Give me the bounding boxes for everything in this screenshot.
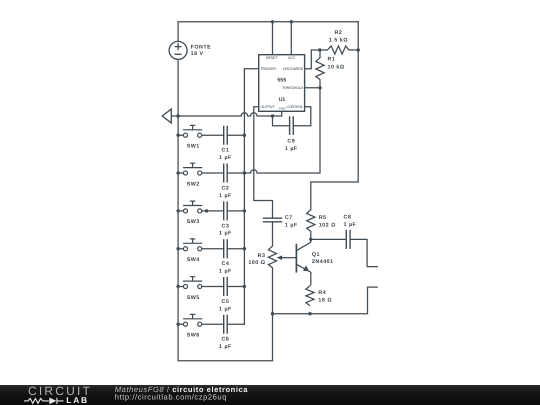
wire VCC pin to top rail (290, 22, 292, 55)
svg-text:C5: C5 (221, 299, 229, 305)
svg-text:http://circuitlab.com/czp26uq: http://circuitlab.com/czp26uq (115, 392, 227, 401)
wire C8 right to lower stub (350, 239, 377, 266)
svg-text:18 Ω: 18 Ω (318, 298, 332, 304)
resistor R2 1.5k (327, 46, 349, 54)
wire R2 right lead (349, 49, 358, 51)
capacitor C5 1uF (224, 277, 228, 296)
capacitor C3 1uF (224, 201, 228, 220)
wire source bottom / left switch rail / bottom ground return (178, 59, 272, 360)
wire SW2 row leads (178, 172, 244, 174)
wire SW5 row leads (178, 286, 244, 288)
svg-text:FONTE: FONTE (191, 45, 212, 51)
svg-text:DISCHARGE: DISCHARGE (283, 67, 304, 71)
wire THRESHOLD pin (305, 87, 320, 89)
svg-text:1 µF: 1 µF (219, 155, 232, 161)
svg-text:R1: R1 (328, 56, 336, 62)
resistor R1 10k (316, 58, 324, 80)
svg-text:Q1: Q1 (312, 252, 320, 258)
svg-text:1 µF: 1 µF (219, 193, 232, 199)
svg-text:C7: C7 (285, 215, 293, 221)
potentiometer R3 100 (268, 246, 276, 268)
wire R2 left node to R1 top (320, 50, 328, 58)
capacitor C1 1uF (224, 126, 228, 145)
wire bottom node to right stub (273, 287, 378, 314)
svg-text:1 µF: 1 µF (219, 344, 232, 350)
svg-text:C4: C4 (221, 261, 229, 267)
op-amp U1 555 timer box (259, 55, 305, 112)
wire top supply rail (178, 21, 358, 23)
svg-text:10 kΩ: 10 kΩ (328, 64, 345, 70)
switch SW1 pushbutton (183, 125, 202, 137)
wire right supply rail down to R5 (311, 22, 358, 210)
potentiometer R3 wiper arrow (281, 257, 296, 259)
capacitor C7 1uF (263, 218, 282, 222)
svg-text:VCC: VCC (288, 56, 296, 60)
wire RESET pin to top rail (272, 22, 274, 55)
svg-text:GND: GND (279, 107, 287, 111)
svg-text:2N4401: 2N4401 (312, 259, 334, 265)
svg-text:LAB: LAB (66, 395, 89, 405)
voltage source V1 FONTE 18V (169, 41, 187, 59)
svg-text:SW1: SW1 (187, 144, 200, 150)
wire SW1 row leads (178, 134, 244, 136)
resistor R4 18 (306, 286, 314, 306)
svg-text:RESET: RESET (266, 56, 278, 60)
wire ground net to 555 GND (hops over trigger and output verticals) (178, 111, 282, 116)
svg-text:C2: C2 (221, 185, 229, 191)
wire R5 bottom to collector node (310, 231, 312, 239)
wire OUTPUT pin down to C7 (254, 107, 273, 218)
wire R3 bottom to ground node (272, 268, 274, 314)
wire C9 right to CONTROL pin (293, 107, 311, 126)
svg-text:18 V: 18 V (191, 51, 204, 57)
capacitor C8 1uF (346, 230, 350, 249)
svg-text:SW3: SW3 (187, 219, 200, 225)
svg-text:SW4: SW4 (187, 257, 200, 263)
resistor R5 102 (307, 210, 315, 232)
footer logo resistor-diode-LAB (24, 398, 64, 404)
svg-text:C3: C3 (221, 223, 229, 229)
svg-text:OUTPUT: OUTPUT (260, 105, 275, 109)
svg-text:1 µF: 1 µF (285, 146, 298, 152)
svg-text:1 µF: 1 µF (219, 269, 232, 275)
svg-text:C9: C9 (287, 139, 295, 145)
svg-text:C6: C6 (221, 337, 229, 343)
wire source top lead (177, 22, 179, 42)
svg-text:R4: R4 (318, 290, 326, 296)
svg-text:CONTROL: CONTROL (286, 105, 303, 109)
svg-text:SW5: SW5 (187, 295, 200, 301)
transistor Q1 2N4401 (296, 239, 310, 285)
svg-text:100 Ω: 100 Ω (248, 260, 265, 266)
wire collector node to C8 left (311, 238, 347, 240)
svg-text:SW2: SW2 (187, 181, 200, 187)
switch SW2 pushbutton (183, 163, 202, 175)
wire C9 left lead (273, 116, 290, 126)
wire SW6 row leads (178, 323, 224, 325)
svg-text:R2: R2 (334, 30, 342, 36)
wire TRIGGER pin to capacitor rail (227, 69, 259, 324)
wire R1 bottom to threshold node (319, 80, 321, 88)
capacitor C6 1uF (224, 315, 228, 334)
capacitor C4 1uF (224, 239, 228, 258)
switch SW3 pushbutton (183, 201, 202, 213)
svg-text:TRIGGER: TRIGGER (260, 67, 276, 71)
wire C7 bottom to R3 top (272, 222, 274, 246)
wire SW3 row leads (178, 210, 244, 212)
svg-text:1 µF: 1 µF (219, 306, 232, 312)
svg-text:1 µF: 1 µF (285, 222, 298, 228)
svg-text:1 µF: 1 µF (344, 222, 357, 228)
svg-text:SW6: SW6 (187, 333, 200, 339)
switch SW5 pushbutton (183, 277, 202, 289)
svg-text:C8: C8 (344, 214, 352, 220)
svg-text:U1: U1 (279, 97, 286, 103)
capacitor C2 1uF (224, 164, 228, 183)
svg-text:102 Ω: 102 Ω (319, 222, 336, 228)
switch SW6 pushbutton (183, 314, 202, 326)
switch SW4 pushbutton (183, 239, 202, 251)
svg-text:THRESHOLD: THRESHOLD (282, 86, 303, 90)
svg-text:1 µF: 1 µF (219, 231, 232, 237)
ground flag node (162, 109, 171, 123)
capacitor C9 1uF (290, 116, 294, 135)
svg-text:1.5 kΩ: 1.5 kΩ (329, 38, 348, 44)
wire SW4 row leads (178, 248, 244, 250)
wire threshold node down and left to row2 (hop over output vertical) (244, 88, 320, 173)
ground flag lead (171, 115, 178, 117)
svg-text:C1: C1 (221, 148, 229, 154)
wire DISCHARGE pin up to R2 left node (305, 50, 320, 69)
svg-text:R3: R3 (258, 253, 266, 259)
svg-text:555: 555 (277, 77, 286, 83)
svg-text:R5: R5 (319, 215, 327, 221)
